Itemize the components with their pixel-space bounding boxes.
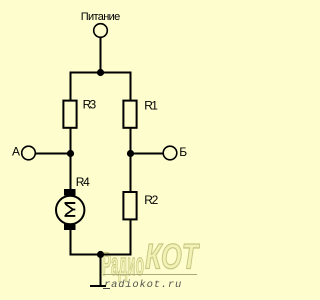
svg-text:КОТ: КОТ <box>145 238 200 277</box>
svg-text:R1: R1 <box>144 98 158 112</box>
svg-text:R4: R4 <box>76 175 90 189</box>
svg-text:Питание: Питание <box>81 11 121 23</box>
svg-text:А: А <box>12 144 20 158</box>
svg-text:Б: Б <box>179 145 187 159</box>
svg-text:radiokot.ru: radiokot.ru <box>104 279 182 291</box>
svg-text:R2: R2 <box>144 193 158 207</box>
svg-text:Радио: Радио <box>102 246 144 282</box>
svg-text:R3: R3 <box>83 98 97 112</box>
